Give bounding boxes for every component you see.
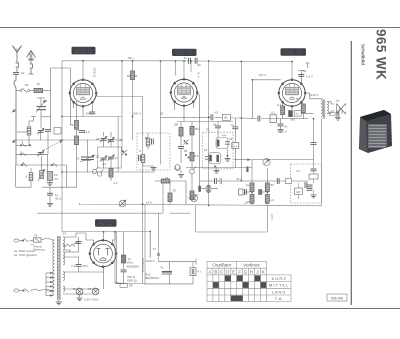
svg-text:Vorkreis: Vorkreis	[243, 263, 260, 268]
svg-text:7000: 7000	[222, 135, 228, 137]
svg-text:10: 10	[145, 136, 149, 140]
svg-text:77: 77	[153, 247, 157, 251]
svg-text:20: 20	[160, 112, 164, 116]
svg-text:J: J	[256, 270, 258, 275]
svg-text:100 V: 100 V	[86, 112, 94, 116]
svg-text:4,7: 4,7	[296, 169, 301, 173]
svg-text:983: 983	[291, 118, 296, 122]
svg-text:4 r: 4 r	[198, 270, 202, 274]
svg-text:H: H	[250, 270, 253, 275]
svg-text:ΩΡ: ΩΡ	[129, 284, 133, 288]
svg-text:2 Sk: 2 Sk	[74, 241, 81, 245]
svg-text:Oszillator: Oszillator	[212, 263, 232, 268]
svg-text:2M: 2M	[174, 123, 179, 127]
svg-text:180: 180	[224, 117, 229, 120]
svg-text:4,5: 4,5	[214, 111, 219, 115]
svg-text:2 b: 2 b	[114, 181, 119, 185]
svg-text:1M: 1M	[195, 127, 200, 131]
svg-text:G: G	[244, 270, 248, 275]
svg-text:27: 27	[115, 156, 119, 160]
svg-text:500 t: 500 t	[115, 281, 121, 285]
svg-text:AZ 11: AZ 11	[99, 221, 113, 227]
svg-text:+100 V: +100 V	[277, 130, 287, 134]
svg-text:16: 16	[44, 99, 48, 103]
svg-text:14 V: 14 V	[146, 201, 152, 205]
svg-text:3p: 3p	[303, 69, 307, 73]
svg-text:(300 Ω): (300 Ω)	[127, 279, 137, 283]
svg-text:965 WK: 965 WK	[331, 296, 344, 300]
svg-text:L A N G: L A N G	[272, 289, 286, 294]
svg-text:0,1 V: 0,1 V	[306, 75, 313, 79]
svg-text:33: 33	[195, 193, 199, 197]
svg-text:965 WK: 965 WK	[374, 29, 389, 80]
svg-text:14 b: 14 b	[84, 130, 90, 134]
svg-text:450(550)V: 450(550)V	[145, 276, 159, 280]
svg-text:75: 75	[70, 123, 74, 127]
svg-text:M I T T E L: M I T T E L	[269, 283, 289, 288]
svg-text:82: 82	[198, 63, 202, 67]
svg-text:50: 50	[184, 149, 188, 153]
svg-text:D: D	[226, 270, 229, 275]
svg-text:10: 10	[21, 71, 25, 75]
svg-text:42 Ω: 42 Ω	[55, 197, 62, 201]
svg-text:F: F	[238, 270, 241, 275]
svg-text:Tst +: Tst +	[128, 56, 135, 60]
svg-text:83: 83	[25, 83, 29, 87]
svg-text:B: B	[214, 270, 217, 275]
svg-text:GW: GW	[296, 190, 301, 194]
svg-text:ECH 11: ECH 11	[93, 68, 97, 78]
svg-text:L4: L4	[271, 198, 275, 202]
svg-text:76: 76	[88, 287, 92, 291]
svg-text:Sicherung: Sicherung	[33, 248, 45, 252]
svg-text:73: 73	[55, 177, 59, 181]
svg-text:4 b: 4 b	[102, 162, 107, 166]
svg-text:75: 75	[73, 287, 77, 291]
svg-text:≈220 V: ≈220 V	[145, 259, 155, 263]
svg-text:53: 53	[271, 183, 275, 187]
svg-text:0,5: 0,5	[195, 154, 200, 158]
svg-text:19: 19	[76, 157, 80, 161]
svg-text:1k: 1k	[246, 183, 250, 187]
svg-text:4,5n: 4,5n	[82, 264, 88, 268]
svg-text:0,1: 0,1	[271, 111, 276, 115]
svg-text:0,1: 0,1	[277, 103, 282, 107]
svg-text:82: 82	[127, 74, 131, 78]
svg-text:Lp: Lp	[336, 99, 340, 103]
svg-text:E: E	[232, 270, 235, 275]
svg-text:7-4: 7-4	[71, 264, 76, 268]
svg-text:197 V: 197 V	[259, 73, 267, 77]
svg-text:100 V: 100 V	[133, 112, 141, 116]
svg-text:12: 12	[204, 148, 208, 152]
svg-text:K: K	[23, 161, 25, 165]
svg-text:4n: 4n	[284, 125, 288, 129]
svg-text:21: 21	[96, 155, 100, 159]
svg-text:A: A	[209, 270, 212, 275]
svg-text:≈310 V: ≈310 V	[309, 93, 319, 97]
svg-text:ECH 11: ECH 11	[75, 49, 93, 55]
svg-text:VERST.REGL: VERST.REGL	[141, 258, 144, 274]
svg-text:Schaltbild: Schaltbild	[361, 44, 366, 65]
svg-text:7s: 7s	[160, 266, 164, 270]
svg-text:3n: 3n	[184, 56, 188, 60]
svg-text:79: 79	[37, 82, 41, 86]
svg-text:D1: D1	[247, 200, 251, 204]
svg-text:ca. 70VA (gesamt): ca. 70VA (gesamt)	[14, 253, 37, 257]
svg-text:450/550V: 450/550V	[127, 265, 140, 269]
svg-text:K: K	[262, 270, 265, 275]
svg-text:T. A.: T. A.	[275, 296, 283, 301]
svg-text:76: 76	[34, 234, 38, 238]
svg-text:42: 42	[229, 137, 233, 141]
svg-text:6,3V~0,5A: 6,3V~0,5A	[84, 298, 98, 302]
svg-text:ECL 11: ECL 11	[285, 51, 302, 57]
svg-text:50: 50	[296, 97, 300, 101]
svg-text:28: 28	[120, 138, 124, 142]
svg-text:7u b: 7u b	[197, 72, 201, 78]
svg-text:K U R Z: K U R Z	[272, 276, 287, 281]
svg-text:37: 37	[165, 176, 169, 180]
svg-text:41,7: 41,7	[236, 177, 242, 181]
svg-text:4,5 V: 4,5 V	[270, 214, 274, 220]
svg-text:23: 23	[63, 232, 67, 236]
svg-text:33: 33	[173, 189, 177, 193]
svg-text:24: 24	[96, 137, 100, 141]
svg-text:C: C	[220, 270, 223, 275]
